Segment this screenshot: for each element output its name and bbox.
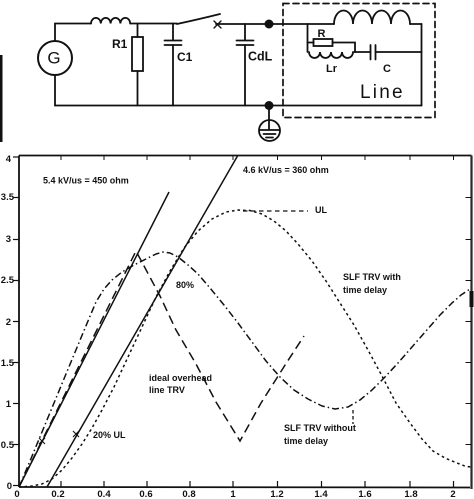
leader line to SLF without label — [352, 410, 354, 424]
capacitor C1 — [165, 24, 182, 106]
svg-text:1.8: 1.8 — [404, 489, 417, 499]
svg-text:time delay: time delay — [284, 436, 328, 446]
ground — [259, 106, 280, 142]
svg-text:Lr: Lr — [326, 63, 338, 75]
svg-text:time delay: time delay — [343, 285, 387, 295]
wire R right — [333, 43, 356, 53]
svg-text:20% UL: 20% UL — [93, 430, 126, 440]
curve line 5.4 kV/us 450 ohm — [19, 192, 169, 487]
resistor R1 — [132, 37, 143, 71]
svg-text:4.6 kV/us = 360 ohm: 4.6 kV/us = 360 ohm — [243, 165, 329, 175]
node top junction — [265, 20, 274, 29]
switch blade — [177, 14, 220, 24]
curve line 4.6 kV/us 360 ohm — [47, 156, 238, 487]
curve ideal overhead line TRV (triangle) — [19, 251, 304, 487]
svg-text:2: 2 — [450, 489, 455, 499]
wire inductor to right corner — [410, 23, 422, 25]
svg-text:3: 3 — [6, 234, 11, 245]
svg-text:0: 0 — [14, 489, 19, 499]
marker x on 450 line — [39, 438, 45, 444]
svg-text:2.5: 2.5 — [1, 275, 15, 286]
axis frame — [19, 155, 472, 157]
svg-text:1.5: 1.5 — [1, 358, 15, 369]
right spine blob — [470, 291, 474, 307]
svg-text:2: 2 — [6, 317, 11, 328]
curve SLF TRV with time delay — [19, 210, 471, 487]
svg-text:1.2: 1.2 — [270, 489, 283, 499]
wire top rail G to inductor — [55, 23, 91, 25]
svg-text:SLF TRV without: SLF TRV without — [284, 423, 356, 433]
x axis labels — [14, 489, 455, 499]
svg-text:UL: UL — [315, 205, 327, 215]
wire node to line branch — [269, 23, 334, 25]
svg-text:Line: Line — [360, 82, 405, 103]
inductor line (top of Line box) — [334, 11, 410, 25]
svg-text:0.8: 0.8 — [182, 489, 195, 499]
svg-text:ideal overhead: ideal overhead — [149, 373, 212, 383]
wire right side down — [421, 24, 423, 106]
resistor R — [314, 39, 333, 46]
svg-text:0: 0 — [7, 481, 12, 492]
svg-text:0.2: 0.2 — [51, 489, 64, 499]
y ticks right spine — [466, 198, 472, 445]
edge artifact left — [0, 55, 3, 142]
svg-text:1: 1 — [230, 489, 236, 499]
svg-text:line TRV: line TRV — [149, 385, 185, 395]
svg-text:R1: R1 — [112, 37, 128, 51]
marker x on 360 line — [73, 431, 79, 437]
capacitor CdL — [237, 24, 254, 106]
svg-text:SLF TRV with: SLF TRV with — [343, 272, 401, 282]
svg-text:1.4: 1.4 — [314, 489, 328, 499]
wire branch drop — [307, 24, 309, 52]
capacitor C — [371, 45, 422, 60]
svg-text:G: G — [47, 49, 60, 68]
inductor L (source side) — [91, 18, 130, 24]
svg-text:4: 4 — [6, 154, 12, 165]
generator G — [38, 41, 72, 75]
svg-text:CdL: CdL — [248, 50, 273, 64]
x ticks top spine — [61, 156, 454, 161]
svg-text:C1: C1 — [177, 50, 193, 64]
svg-text:C: C — [383, 63, 391, 75]
wire to R left — [308, 42, 314, 44]
wire switch to node — [216, 23, 269, 25]
x ticks — [61, 481, 454, 487]
Line box dashed border — [283, 4, 435, 118]
svg-text:80%: 80% — [176, 280, 194, 290]
svg-text:0.6: 0.6 — [139, 489, 152, 499]
svg-text:0.4: 0.4 — [97, 489, 111, 499]
svg-text:3.5: 3.5 — [1, 192, 15, 203]
svg-text:1: 1 — [6, 399, 12, 410]
curve SLF TRV without time delay — [19, 252, 470, 487]
wire G bottom — [54, 75, 56, 106]
wire G top to rail — [54, 24, 56, 42]
wire bottom rail — [55, 105, 422, 107]
UL peak dashed line — [243, 210, 308, 212]
inductor Lr — [309, 52, 353, 58]
svg-text:0.5: 0.5 — [1, 440, 15, 451]
node bottom junction — [265, 101, 274, 110]
svg-text:1.6: 1.6 — [358, 489, 371, 499]
y ticks — [13, 157, 19, 486]
svg-text:5.4 kV/us = 450 ohm: 5.4 kV/us = 450 ohm — [43, 176, 129, 186]
wire Lr to C — [354, 51, 371, 53]
switch contact x — [214, 21, 221, 28]
y axis labels — [1, 154, 15, 492]
wire R1 bottom — [137, 71, 139, 106]
wire inductor to switch — [130, 23, 177, 25]
svg-text:R: R — [318, 28, 326, 40]
wire R1 top — [137, 24, 139, 38]
